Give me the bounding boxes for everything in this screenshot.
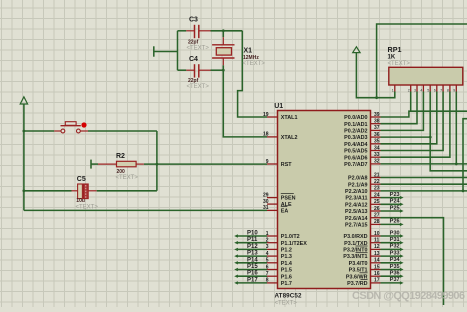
capacitor C3 leads — [178, 30, 211, 32]
svg-text:EA: EA — [281, 209, 289, 215]
svg-text:18: 18 — [263, 132, 269, 138]
wire P0.7 bus out — [381, 163, 467, 165]
resistor pack RP1 pin 4 — [420, 85, 423, 93]
svg-text:P3.7/RD: P3.7/RD — [347, 281, 367, 287]
svg-text:P34: P34 — [390, 257, 401, 263]
wire P0.6 to RP1 pin8 — [381, 92, 450, 158]
svg-text:9: 9 — [453, 89, 455, 93]
resistor R2 body — [117, 161, 137, 167]
node P36 terminal — [381, 271, 404, 278]
wire P2.2 bus out — [381, 190, 467, 192]
svg-text:AT89C52: AT89C52 — [275, 293, 302, 300]
svg-text:P35: P35 — [390, 264, 400, 270]
svg-text:<TEXT>: <TEXT> — [116, 175, 139, 181]
svg-text:10: 10 — [374, 231, 380, 237]
svg-text:<TEXT>: <TEXT> — [187, 84, 210, 90]
wire VCC down to RP1 common — [356, 53, 394, 98]
svg-text:P32: P32 — [390, 244, 400, 250]
pin 10 P3.0/RXD (right) — [344, 231, 381, 240]
svg-text:P2.0/A8: P2.0/A8 — [348, 176, 367, 182]
wire button to RST node — [88, 130, 157, 132]
svg-text:P25: P25 — [390, 205, 400, 211]
wire RP1 pin2 drop — [410, 92, 412, 112]
junction C4/crystal — [222, 69, 225, 72]
svg-text:23: 23 — [374, 186, 380, 192]
pin 37 P0.2/AD2 (right) — [344, 125, 380, 134]
svg-text:28: 28 — [374, 219, 380, 225]
node P15 terminal — [234, 264, 267, 271]
svg-text:35: 35 — [374, 139, 380, 145]
svg-text:<TEXT>: <TEXT> — [388, 61, 411, 67]
svg-text:RP1: RP1 — [388, 45, 402, 54]
svg-text:C5: C5 — [77, 176, 86, 183]
crystal X1 body — [216, 48, 231, 55]
svg-text:14: 14 — [374, 258, 380, 264]
wire P0.4 to RP1 pin6 — [381, 92, 437, 144]
button state red dot — [81, 122, 86, 127]
node P26 terminal — [381, 219, 404, 226]
pin 4 P1.3 (left) — [266, 251, 292, 260]
pin 21 P2.0/A8 (right) — [348, 172, 380, 181]
node P11 terminal — [234, 237, 267, 244]
svg-text:37: 37 — [374, 125, 380, 131]
pin 25 P2.4/A12 (right) — [345, 199, 380, 208]
button SW contacts — [61, 129, 80, 133]
svg-text:3: 3 — [414, 89, 416, 93]
pin 8 P1.7 (left) — [266, 278, 292, 287]
svg-text:15: 15 — [374, 264, 380, 270]
svg-text:P1.7: P1.7 — [281, 281, 292, 287]
svg-text:P3.0/RXD: P3.0/RXD — [344, 234, 368, 240]
capacitor C5 body (electrolytic) — [78, 184, 89, 199]
svg-text:12: 12 — [374, 244, 380, 250]
svg-text:R2: R2 — [116, 153, 125, 160]
crystal X1 bottom plate — [212, 57, 234, 59]
pin 11 P3.1/TXD (right) — [344, 238, 380, 247]
node P34 terminal — [381, 257, 404, 264]
wire XTAL2 net vertical — [223, 70, 267, 137]
svg-text:6: 6 — [434, 89, 436, 93]
svg-text:P33: P33 — [390, 250, 400, 256]
node P37 terminal — [381, 277, 404, 284]
ground terminal (R2) — [90, 160, 92, 169]
pin 1 P1.0/T2 (left) — [266, 231, 300, 240]
pin 7 P1.6 (left) — [266, 271, 292, 280]
pin 27 P2.6/A14 (right) — [345, 213, 380, 222]
wire ground to C3/C4 junction — [154, 51, 178, 53]
svg-text:P0.3/AD3: P0.3/AD3 — [344, 135, 367, 141]
svg-text:P15: P15 — [247, 264, 258, 270]
svg-text:P0.2/AD2: P0.2/AD2 — [344, 129, 367, 135]
node P12 terminal — [234, 244, 267, 251]
wire VCC feed from top right — [377, 24, 467, 98]
svg-text:P2.2/A10: P2.2/A10 — [345, 189, 367, 195]
resistor pack RP1 pin 8 — [447, 85, 450, 93]
svg-text:P2.7/A15: P2.7/A15 — [345, 223, 367, 229]
wire C3/C4 left vertical — [177, 31, 179, 70]
button SW actuator bar — [61, 125, 81, 127]
IC U1 AT89C52 body — [278, 111, 371, 289]
svg-text:P0.7/AD7: P0.7/AD7 — [344, 162, 367, 168]
node P10 terminal — [234, 231, 267, 238]
pin 3 P1.2 (left) — [266, 244, 292, 253]
wire P2.1 bus out — [381, 183, 467, 185]
crystal X1 top lead — [222, 31, 224, 45]
capacitor C5 leads — [72, 190, 97, 192]
svg-text:P14: P14 — [247, 257, 258, 263]
svg-text:P31: P31 — [390, 237, 400, 243]
resistor pack RP1 pin 3 — [414, 85, 417, 93]
resistor pack RP1 pin 5 — [427, 85, 430, 93]
pin 9 RST (left) — [266, 159, 293, 168]
svg-text:XTAL2: XTAL2 — [281, 135, 298, 141]
node P23 terminal — [381, 192, 404, 199]
svg-text:RST: RST — [281, 162, 292, 168]
node P13 terminal — [234, 251, 267, 258]
node P16 terminal — [234, 271, 267, 278]
svg-text:<TEXT>: <TEXT> — [76, 204, 99, 210]
svg-text:17: 17 — [374, 278, 380, 284]
svg-text:P17: P17 — [247, 277, 258, 283]
wire P0.5 to RP1 pin7 — [381, 92, 444, 151]
junction VCC/button — [23, 130, 26, 133]
node P25 terminal — [381, 205, 404, 212]
svg-text:P16: P16 — [247, 271, 258, 277]
pin 38 P0.1/AD1 (right) — [344, 119, 380, 128]
svg-text:10u: 10u — [76, 198, 85, 204]
svg-text:25: 25 — [374, 199, 380, 205]
svg-text:21: 21 — [374, 172, 380, 178]
svg-text:P12: P12 — [247, 244, 258, 250]
svg-text:26: 26 — [374, 206, 380, 212]
pin 32 P0.7/AD7 (right) — [344, 159, 380, 168]
pin 18 XTAL2 (left) — [263, 132, 298, 141]
svg-text:P0.1/AD1: P0.1/AD1 — [344, 122, 367, 128]
power terminal VCC (RP1) — [353, 47, 360, 53]
junction right-edge/P2.2 — [462, 190, 465, 193]
svg-text:P11: P11 — [247, 237, 258, 243]
pin 5 P1.4 (left) — [266, 258, 292, 267]
svg-text:P36: P36 — [390, 271, 400, 277]
node P32 terminal — [381, 244, 404, 251]
resistor pack RP1 pin 9 — [453, 85, 456, 93]
pin 36 P0.3/AD3 (right) — [344, 132, 380, 141]
svg-text:8: 8 — [447, 89, 449, 93]
capacitor C3 plates — [195, 25, 199, 38]
wire node vertical (button/RST/C5) — [156, 131, 158, 191]
svg-text:P1.3: P1.3 — [281, 254, 292, 260]
pin 34 P0.5/AD5 (right) — [344, 145, 380, 154]
svg-text:5: 5 — [427, 89, 429, 93]
junction VCC/C5 — [23, 189, 26, 192]
pin 26 P2.5/A13 (right) — [345, 206, 380, 215]
svg-text:31: 31 — [263, 205, 269, 211]
svg-text:1K: 1K — [388, 55, 396, 61]
svg-text:P1.6: P1.6 — [281, 274, 292, 280]
svg-text:P0.4/AD4: P0.4/AD4 — [344, 142, 367, 148]
svg-text:X1: X1 — [244, 47, 253, 54]
svg-text:P3.3/INT1: P3.3/INT1 — [343, 254, 367, 260]
svg-text:P24: P24 — [390, 199, 401, 205]
svg-text:19: 19 — [263, 112, 269, 118]
wire P0.1 to RP1 pin3 — [381, 92, 418, 124]
svg-text:C3: C3 — [189, 17, 198, 24]
wire RP1 pin9 drop — [455, 92, 457, 164]
junction RST node — [156, 163, 159, 166]
pin 19 XTAL1 (left) — [263, 112, 298, 121]
wire C3 to XTAL1 net — [211, 30, 243, 32]
ground terminal (C3/C4) — [153, 46, 155, 56]
power terminal VCC (left) — [20, 97, 27, 104]
junction P0.7/RP1 — [455, 163, 458, 166]
node P24 terminal — [381, 199, 404, 206]
node P14 terminal — [234, 257, 267, 264]
wire XTAL1 net vertical — [238, 31, 267, 117]
pin 22 P2.1/A9 (right) — [348, 179, 380, 188]
pin 23 P2.2/A10 (right) — [345, 186, 380, 195]
svg-text:P13: P13 — [247, 251, 258, 257]
resistor pack RP1 pin 1 — [392, 85, 395, 93]
svg-text:P0.5/AD5: P0.5/AD5 — [344, 149, 367, 155]
svg-text:36: 36 — [374, 132, 380, 138]
crystal X1 bottom lead — [222, 58, 224, 70]
junction VCC/RP1 — [375, 96, 378, 99]
pin 2 P1.1/T2EX (left) — [266, 238, 308, 247]
svg-text:P1.4: P1.4 — [281, 261, 292, 267]
wire VCC to C5 — [24, 190, 72, 192]
pin 16 P3.6/WR (right) — [346, 271, 381, 280]
wire P0.2 to RP1 pin4 — [381, 92, 424, 131]
svg-text:P30: P30 — [390, 230, 400, 236]
wire right-edge feed down — [463, 119, 467, 191]
svg-text:39: 39 — [374, 112, 380, 118]
svg-text:4: 4 — [420, 89, 422, 93]
svg-text:29: 29 — [263, 192, 269, 198]
svg-text:24: 24 — [374, 192, 380, 198]
svg-text:33: 33 — [374, 152, 380, 158]
svg-text:30: 30 — [263, 199, 269, 205]
wire ground to R2 — [91, 163, 98, 165]
svg-text:<TEXT>: <TEXT> — [275, 301, 298, 307]
svg-text:P1.1/T2EX: P1.1/T2EX — [281, 241, 307, 247]
button SW leads — [54, 130, 88, 132]
node P33 terminal — [381, 250, 404, 257]
crystal X1 top plate — [212, 44, 234, 46]
svg-text:7: 7 — [440, 89, 442, 93]
node P17 terminal — [234, 277, 267, 284]
svg-text:11: 11 — [374, 238, 380, 244]
node P31 terminal — [381, 237, 404, 244]
svg-text:<TEXT>: <TEXT> — [187, 45, 210, 51]
pin 31 EA (left) — [263, 205, 288, 214]
pin 17 P3.7/RD (right) — [347, 278, 380, 287]
wire C5 to RST node — [97, 190, 157, 192]
node P30 terminal — [381, 230, 404, 237]
resistor pack RP1 pin 6 — [434, 85, 437, 93]
svg-text:P26: P26 — [390, 219, 400, 225]
pin 12 P3.2/INT0 (right) — [343, 244, 380, 253]
pin 35 P0.4/AD4 (right) — [344, 139, 380, 148]
pin 30 ALE (left) — [263, 199, 292, 208]
pin 13 P3.3/INT1 (right) — [343, 251, 380, 260]
svg-text:P0.6/AD6: P0.6/AD6 — [344, 155, 367, 161]
wire VCC rail vertical — [23, 104, 25, 210]
svg-text:U1: U1 — [274, 103, 283, 110]
node P35 terminal — [381, 264, 404, 271]
svg-text:16: 16 — [374, 271, 380, 277]
svg-text:32: 32 — [374, 159, 380, 165]
button SW plunger — [65, 122, 76, 126]
wire C4 to XTAL2 net — [211, 69, 224, 71]
svg-text:34: 34 — [374, 145, 380, 151]
resistor R2 leads — [98, 163, 144, 165]
pin 33 P0.6/AD6 (right) — [344, 152, 380, 161]
svg-text:13: 13 — [374, 251, 380, 257]
svg-text:9: 9 — [266, 159, 269, 165]
wire P2.0 bus out — [381, 177, 467, 179]
svg-text:P2.3/A11: P2.3/A11 — [345, 196, 367, 202]
svg-text:38: 38 — [374, 119, 380, 125]
pin 28 P2.7/A15 (right) — [345, 219, 380, 228]
resistor pack RP1 pin 2 — [408, 85, 411, 93]
svg-text:22: 22 — [374, 179, 380, 185]
wire P2.6 down right — [381, 218, 444, 305]
svg-text:P1.0/T2: P1.0/T2 — [281, 234, 300, 240]
svg-text:PSEN: PSEN — [281, 196, 296, 202]
pin 14 P3.4/T0 (right) — [349, 258, 381, 267]
pin 39 P0.0/AD0 (right) — [344, 112, 380, 121]
svg-text:P37: P37 — [390, 277, 400, 283]
svg-text:CSDN @QQ1928499906: CSDN @QQ1928499906 — [352, 290, 465, 302]
svg-text:2: 2 — [408, 89, 410, 93]
capacitor C4 leads — [178, 69, 211, 71]
pin 29 PSEN (left) — [263, 192, 296, 201]
svg-text:C4: C4 — [189, 56, 198, 63]
capacitor C4 plates — [195, 64, 199, 77]
svg-text:P1.2: P1.2 — [281, 248, 292, 254]
junction P0.3/RP1 — [429, 136, 432, 139]
svg-text:P3.4/T0: P3.4/T0 — [349, 261, 368, 267]
svg-text:<TEXT>: <TEXT> — [243, 61, 266, 67]
svg-text:P2.1/A9: P2.1/A9 — [348, 182, 367, 188]
resistor pack RP1 pin 7 — [440, 85, 443, 93]
svg-text:P0.0/AD0: P0.0/AD0 — [344, 115, 367, 121]
svg-text:P2.6/A14: P2.6/A14 — [345, 216, 367, 222]
svg-text:P2.5/A13: P2.5/A13 — [345, 209, 367, 215]
svg-text:22pf: 22pf — [188, 78, 199, 84]
pin 15 P3.5/T1 (right) — [349, 264, 381, 273]
junction C3/crystal — [222, 29, 225, 32]
svg-text:ALE: ALE — [281, 202, 292, 208]
resistor pack RP1 body — [389, 67, 463, 85]
svg-text:1: 1 — [392, 89, 394, 93]
wire VCC to button — [24, 130, 54, 132]
svg-text:P10: P10 — [247, 231, 258, 237]
wire P0.3 to RP1 pin5 — [381, 92, 467, 171]
wire P0.0 to RP1 pin2 / bus out — [381, 111, 467, 117]
svg-text:27: 27 — [374, 213, 380, 219]
pin 24 P2.3/A11 (right) — [345, 192, 380, 201]
svg-text:XTAL1: XTAL1 — [281, 115, 298, 121]
wire VCC to EA pin — [24, 209, 267, 211]
svg-text:P23: P23 — [390, 192, 400, 198]
svg-text:P1.5: P1.5 — [281, 268, 292, 274]
svg-text:P2.4/A12: P2.4/A12 — [345, 202, 367, 208]
pin 6 P1.5 (left) — [266, 264, 292, 273]
wire R2 to RST pin — [144, 163, 267, 165]
